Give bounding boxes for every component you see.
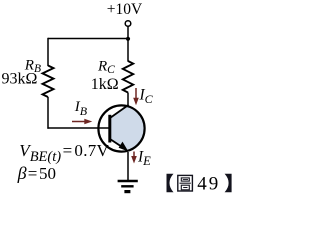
- svg-text:+10V: +10V: [107, 1, 143, 18]
- wire RC to collector: [127, 93, 129, 107]
- ground: [118, 181, 138, 192]
- transistor emitter lead: [110, 139, 124, 148]
- wire left vertical to RB: [47, 38, 49, 66]
- resistor RB: [43, 66, 54, 98]
- transistor collector lead: [110, 105, 129, 118]
- supply terminal: [125, 21, 131, 27]
- figure caption bracket right: [225, 174, 232, 192]
- transistor base bar: [108, 115, 111, 143]
- wire terminal to junction: [127, 26, 129, 38]
- figure caption character 圖: [178, 175, 193, 191]
- wire emitter down: [127, 152, 129, 181]
- svg-text:1kΩ: 1kΩ: [91, 76, 119, 93]
- transistor Q1 circle: [98, 105, 144, 151]
- figure caption bracket left: [167, 174, 174, 192]
- node junction dot: [126, 37, 130, 41]
- emitter arrowhead: [119, 142, 129, 152]
- current arrow IE: [131, 152, 137, 164]
- svg-text:49: 49: [197, 174, 220, 195]
- svg-text:β=50: β=50: [17, 163, 56, 183]
- wire base horizontal: [47, 127, 110, 129]
- svg-text:93kΩ: 93kΩ: [2, 71, 38, 88]
- transistor Q1 shaded region: [110, 105, 148, 153]
- resistor RC: [123, 61, 133, 93]
- wire RC top: [127, 39, 129, 62]
- wire RB to base corner: [47, 97, 49, 129]
- current arrow IB: [72, 119, 92, 124]
- wire top horizontal: [48, 38, 128, 40]
- current arrow IC: [133, 88, 139, 105]
